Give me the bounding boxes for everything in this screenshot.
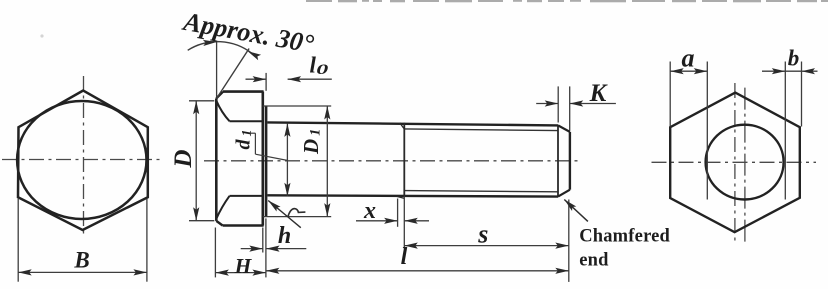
thread runout slash top <box>400 123 405 129</box>
thread runout slash bottom <box>397 196 405 198</box>
head upper facet arc <box>216 101 229 121</box>
faint page speck <box>40 34 43 37</box>
horizontal centerline (left view) <box>2 159 163 161</box>
dimension line H <box>215 272 266 274</box>
h dimension right segment <box>266 248 306 250</box>
h extension line left <box>262 228 264 253</box>
d1 leader vertical <box>254 133 256 154</box>
head bottom edge <box>223 224 264 227</box>
fillet radius hook <box>288 209 306 217</box>
d1 leader tick <box>250 132 255 134</box>
b dimension left segment <box>762 70 785 72</box>
a extension line right <box>706 62 708 200</box>
l0 dimension right segment <box>288 78 332 80</box>
h extension line right <box>265 218 267 277</box>
K extension line right <box>569 86 571 130</box>
30deg slanted line <box>217 49 249 99</box>
dimension line D1 <box>326 106 328 217</box>
horizontal centerline (side view) <box>204 160 579 162</box>
dimension D extension top <box>189 100 214 102</box>
head upper facet line <box>230 120 263 122</box>
shank top edge <box>267 122 558 125</box>
b extension line right <box>801 62 803 127</box>
svg-text:x: x <box>363 198 376 224</box>
x dimension left segment <box>356 220 398 222</box>
head top-left chamfer <box>216 92 223 99</box>
full-thread boundary line <box>403 123 405 197</box>
svg-text:0: 0 <box>316 61 328 77</box>
dimension line l <box>266 270 569 272</box>
h dimension left segment <box>241 248 263 250</box>
svg-text:d1: d1 <box>232 130 255 150</box>
svg-text:b: b <box>788 46 800 71</box>
svg-text:B: B <box>73 248 89 273</box>
B extension line left <box>17 199 19 282</box>
dimension D extension bottom <box>189 220 214 222</box>
dimension line D <box>195 101 197 221</box>
a extension line left <box>669 62 671 127</box>
end chamfer bottom diagonal <box>558 190 570 197</box>
dimension line a <box>670 70 707 72</box>
head right edge <box>261 92 264 226</box>
vertical centerline (left view) <box>83 76 85 238</box>
dimension line d1 <box>286 123 288 196</box>
svg-text:H: H <box>234 254 253 278</box>
svg-text:D1: D1 <box>299 129 324 155</box>
hexagon outline (right view) <box>670 93 800 233</box>
dimension D1 extension bottom <box>263 216 331 218</box>
scanned page top-edge text remnants <box>306 0 828 2</box>
x extension line <box>397 199 399 227</box>
K extension line left <box>557 86 559 122</box>
svg-text:l: l <box>401 244 408 270</box>
svg-text:Chamfered: Chamfered <box>579 226 670 246</box>
head lower facet arc <box>216 196 229 219</box>
dimension line s <box>404 245 569 247</box>
secondary vertical line (right view) <box>744 88 746 245</box>
30deg vertical extension line <box>216 41 218 97</box>
dimension D1 extension top <box>263 105 331 107</box>
K dimension right segment <box>570 103 616 105</box>
d1 leader diagonal <box>255 154 287 160</box>
thread minor line bottom <box>404 191 558 192</box>
head bottom-left chamfer <box>216 221 222 226</box>
svg-text:a: a <box>682 43 695 72</box>
b dimension middle segment <box>785 70 801 72</box>
svg-text:h: h <box>278 223 291 249</box>
chamfered end leader <box>564 200 588 222</box>
s extension line right <box>568 200 570 282</box>
l0 extension line left <box>265 73 267 91</box>
s extension line left (below thread boundary) <box>403 197 405 249</box>
shank circle (right view) <box>706 125 784 200</box>
shank bottom edge <box>267 195 558 196</box>
svg-text:s: s <box>477 220 488 249</box>
svg-text:D: D <box>170 150 197 169</box>
svg-text:end: end <box>579 251 609 271</box>
30deg angle arc <box>188 42 253 54</box>
H extension line left <box>214 228 216 278</box>
chamfer start line at end <box>557 125 559 196</box>
bolt end face <box>569 132 571 190</box>
head lower facet line <box>230 195 263 197</box>
washer face edge <box>265 106 268 217</box>
head circle (left view) <box>17 101 146 219</box>
b dimension right segment <box>802 70 818 72</box>
K dimension left segment <box>536 103 558 105</box>
dimension line B <box>18 271 147 273</box>
svg-text:K: K <box>589 80 609 107</box>
fillet leader arrow <box>268 201 301 228</box>
x dimension right segment <box>404 220 429 222</box>
head left edge <box>215 98 218 220</box>
hexagon outline (left view) <box>18 91 148 231</box>
B extension line right <box>146 199 148 282</box>
l0 dimension left segment <box>246 78 267 80</box>
thread minor line top <box>404 129 558 131</box>
horizontal centerline (right view) <box>652 161 817 163</box>
vertical centerline (right view) <box>734 83 736 245</box>
end chamfer top diagonal <box>558 125 570 131</box>
b extension line left <box>784 62 786 200</box>
head top edge <box>223 90 264 93</box>
